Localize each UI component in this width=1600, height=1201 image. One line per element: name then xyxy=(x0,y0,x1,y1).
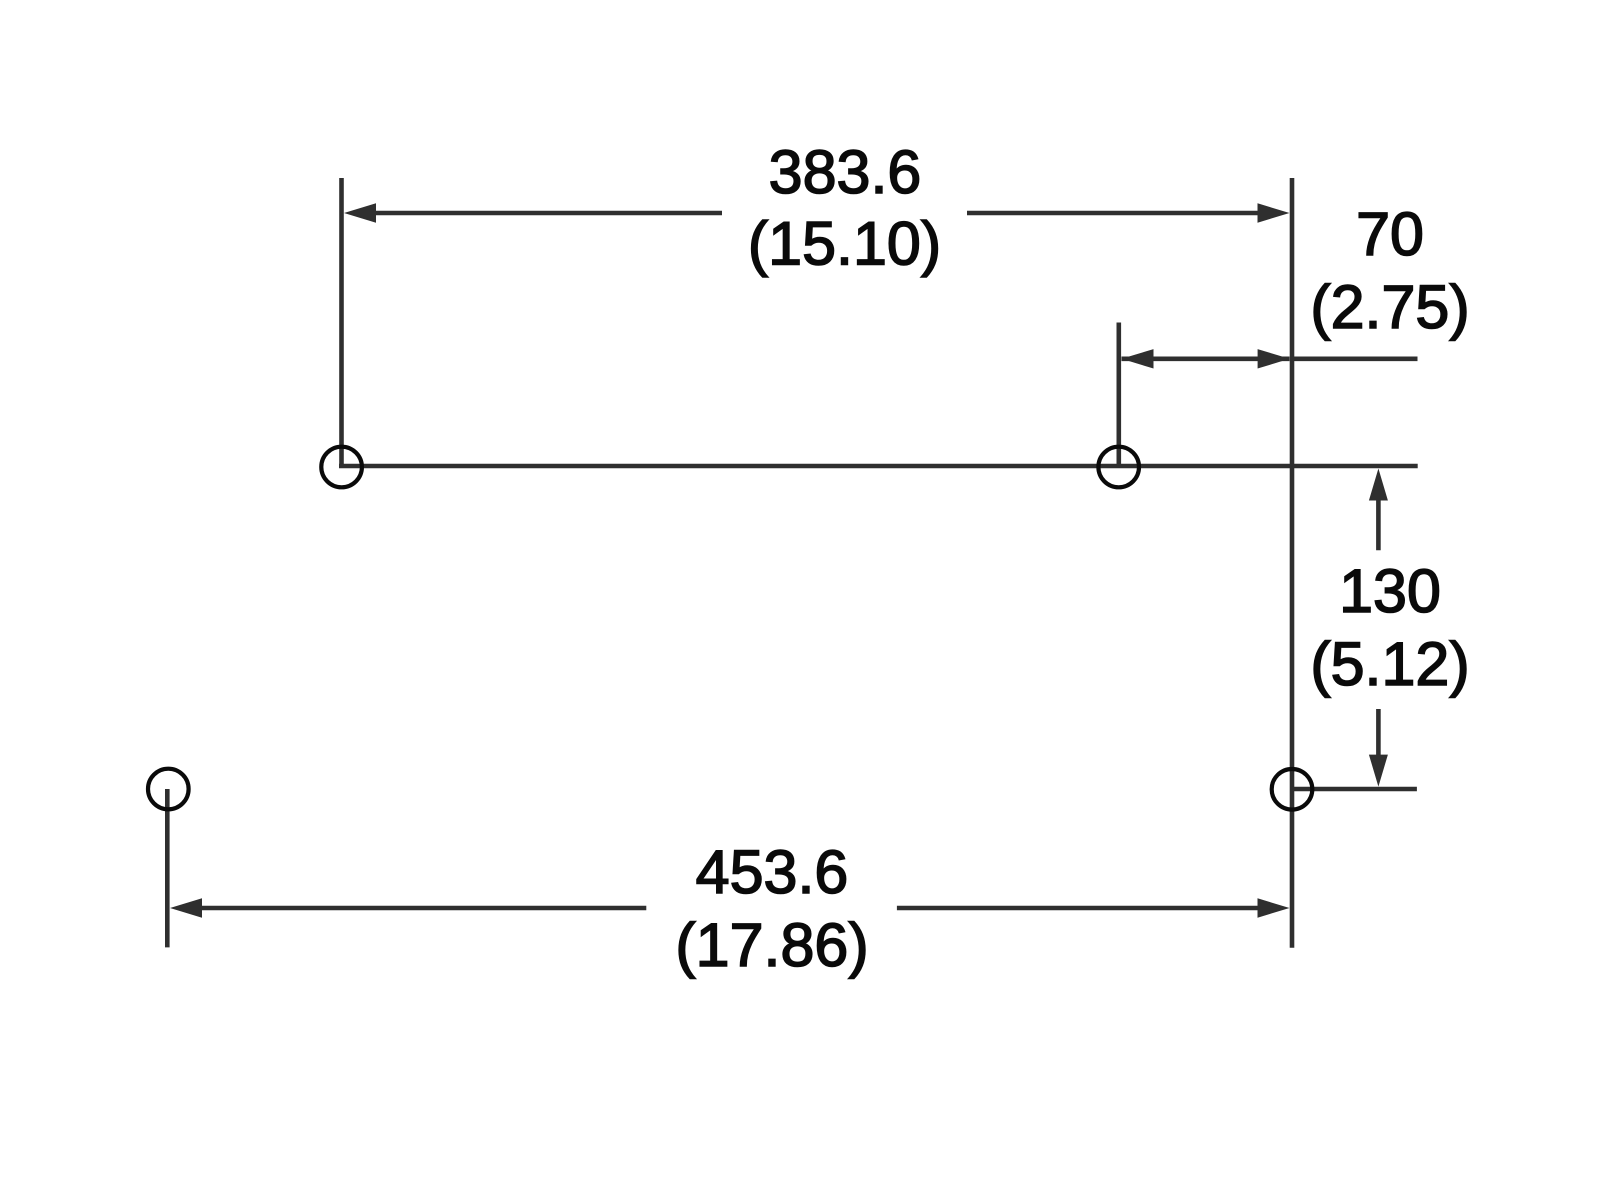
extension line left (hole A vertical) xyxy=(339,178,344,466)
arrowhead up of 130 xyxy=(1369,469,1388,501)
arrowhead down of 130 xyxy=(1369,755,1388,787)
hole C horizontal line xyxy=(1292,787,1417,792)
hole D circle xyxy=(148,769,189,810)
arrowhead right of 70 xyxy=(1258,349,1290,368)
value label (17.86) xyxy=(675,911,868,979)
arrowhead left of 383.6 xyxy=(344,203,376,222)
hole A circle xyxy=(321,447,362,488)
value label (2.75) xyxy=(1310,273,1469,341)
svg-text:(15.10): (15.10) xyxy=(748,210,941,278)
dimension 130 lower shaft xyxy=(1376,709,1381,758)
svg-text:(2.75): (2.75) xyxy=(1310,273,1469,341)
value label 70 xyxy=(1356,200,1424,268)
hole B circle xyxy=(1098,447,1139,488)
dimension line 70 shaft xyxy=(1122,356,1290,361)
dimension 130 upper shaft xyxy=(1376,497,1381,550)
dimension line 453.6 right shaft xyxy=(897,906,1263,911)
value label 453.6 xyxy=(696,838,849,906)
svg-text:(5.12): (5.12) xyxy=(1310,630,1469,698)
value label 383.6 xyxy=(769,138,922,206)
svg-text:(17.86): (17.86) xyxy=(675,911,868,979)
dimension line 383.6 left shaft xyxy=(370,211,722,216)
arrowhead right of 383.6 xyxy=(1258,203,1290,222)
dimension line 383.6 right shaft xyxy=(967,211,1263,216)
svg-text:383.6: 383.6 xyxy=(769,138,922,206)
arrowhead left of 453.6 xyxy=(170,898,202,917)
extension line right of 70 dimension xyxy=(1292,356,1418,361)
value label 130 xyxy=(1339,557,1441,625)
main horizontal hole line xyxy=(339,464,1418,469)
svg-text:70: 70 xyxy=(1356,200,1424,268)
dimension line 453.6 left shaft xyxy=(196,906,646,911)
hole C circle xyxy=(1272,769,1313,810)
svg-text:130: 130 xyxy=(1339,557,1441,625)
extension tick for 70 dimension xyxy=(1117,323,1122,467)
extension line bottom-left (hole D vertical) xyxy=(165,789,170,947)
value label (5.12) xyxy=(1310,630,1469,698)
main vertical line right xyxy=(1290,178,1295,948)
svg-text:453.6: 453.6 xyxy=(696,838,849,906)
arrowhead right of 453.6 xyxy=(1258,898,1290,917)
value label (15.10) xyxy=(748,210,941,278)
arrowhead left of 70 xyxy=(1122,349,1154,368)
